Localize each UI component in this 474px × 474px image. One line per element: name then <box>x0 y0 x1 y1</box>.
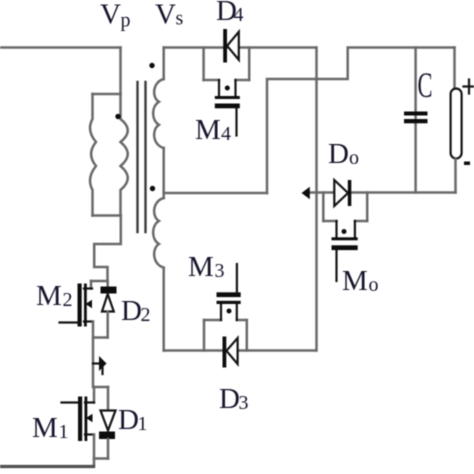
svg-text:M: M <box>195 114 221 146</box>
plus terminal <box>464 80 474 94</box>
svg-text:D: D <box>121 295 142 327</box>
transformer secondary winding Vs <box>153 48 164 351</box>
primary phase dot <box>115 114 120 119</box>
svg-text:o: o <box>369 274 379 296</box>
transformer core <box>136 82 138 232</box>
svg-text:D: D <box>328 138 349 170</box>
wire top-left input to primary <box>0 46 121 49</box>
wire jog primary bottom to M2 <box>94 216 121 282</box>
svg-text:V: V <box>155 0 176 31</box>
secondary phase dot upper <box>149 63 154 68</box>
long rail D4/D3 cathodes <box>315 48 318 351</box>
svg-text:M: M <box>188 251 214 283</box>
current arrow at rail junction <box>302 187 310 199</box>
svg-text:4: 4 <box>221 123 231 145</box>
wire center tap <box>164 192 267 195</box>
diode D1 <box>94 387 116 459</box>
svg-text:s: s <box>176 8 184 30</box>
mosfet M4 <box>204 48 250 136</box>
svg-text:2: 2 <box>141 304 151 326</box>
svg-text:o: o <box>349 147 359 169</box>
capacitor C <box>404 48 428 193</box>
load resistor <box>451 48 462 193</box>
mosfet M3 <box>204 264 247 351</box>
ground return rail bottom <box>0 465 94 468</box>
svg-text:p: p <box>121 10 131 32</box>
svg-text:4: 4 <box>234 4 244 26</box>
svg-text:3: 3 <box>215 260 225 282</box>
wire vertical into primary top <box>119 48 122 95</box>
diode D2 <box>93 281 117 338</box>
diode D4 <box>223 29 239 63</box>
svg-text:3: 3 <box>239 392 249 414</box>
svg-text:V: V <box>100 0 121 31</box>
diode D3 <box>223 337 238 368</box>
svg-text:M: M <box>32 412 58 444</box>
output bottom wire with Do <box>309 191 456 194</box>
svg-text:D: D <box>118 404 139 436</box>
svg-text:1: 1 <box>138 413 148 435</box>
svg-text:M: M <box>36 280 62 312</box>
wire secondary bottom to D3 and rail <box>164 349 316 352</box>
transformer primary winding Vp <box>90 94 128 216</box>
mosfet Mo <box>323 193 367 282</box>
svg-text:M: M <box>342 265 368 297</box>
svg-text:D: D <box>219 383 240 415</box>
rail between M2 and M1 <box>92 322 95 388</box>
minus terminal <box>464 162 470 166</box>
current arrow mid-leg <box>93 362 100 364</box>
svg-text:2: 2 <box>63 289 73 311</box>
center tap riser wire <box>267 48 455 194</box>
diode Do <box>334 180 351 206</box>
wire secondary top to D4 and rail <box>164 46 316 49</box>
svg-text:1: 1 <box>59 421 69 443</box>
mosfet M2 <box>60 281 108 327</box>
svg-text:C: C <box>418 65 433 105</box>
secondary phase dot lower (center tap) <box>150 186 155 191</box>
mosfet M1 <box>62 387 109 466</box>
